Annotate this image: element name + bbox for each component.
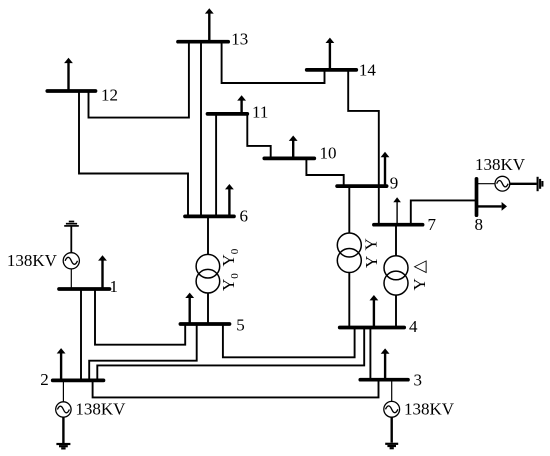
svg-text:14: 14 [359,61,377,80]
svg-text:3: 3 [414,371,423,390]
wire line 4-5 [223,324,355,357]
ground below generator G2 [56,444,70,448]
ground above generator G1 [64,222,79,226]
svg-text:138KV: 138KV [404,399,455,418]
wire line 7-8 [411,200,477,224]
transformer 5-6 Y0Y0 [196,216,220,324]
svg-text:Y: Y [410,278,429,290]
generator G3 at bus 3 [384,380,400,443]
svg-text:6: 6 [240,206,249,225]
wire line 1-5 [95,289,185,345]
wire line 2-5 [89,324,197,380]
svg-text:8: 8 [475,215,484,234]
bus 1 [59,287,110,291]
svg-text:138KV: 138KV [75,399,126,418]
ground below generator G3 [385,444,398,448]
svg-text:138KV: 138KV [7,251,58,270]
wire line 2-3 [93,380,379,398]
generator G2 at bus 2 [56,380,71,443]
load arrow at bus 3 [381,348,390,379]
svg-text:1: 1 [110,277,119,296]
load arrow at bus 5 [185,293,194,324]
svg-text:11: 11 [252,103,268,122]
bus 9 [337,184,387,188]
bus 3 [360,378,408,382]
wire line 6-12 [79,91,188,216]
svg-text:9: 9 [390,174,399,193]
bus 6 [185,215,234,219]
wire line 10-11 [247,114,270,158]
load arrow at bus 12 [64,58,73,91]
transformer 4-7 Y-delta [384,225,408,328]
svg-text:Y: Y [362,256,381,268]
bus 10 [264,157,314,161]
wire line 9-14 [348,70,379,186]
load arrow at bus 2 [57,348,66,380]
wire line 13-14 [222,42,325,83]
svg-text:5: 5 [236,316,245,335]
load arrow at bus 6 [225,184,234,216]
load arrow at bus 10 [289,136,298,159]
load arrow at bus 13 [205,8,214,42]
transformer 4-9 YY [337,186,361,327]
svg-text:Y: Y [362,238,381,250]
wire line 6-11 [215,114,217,216]
svg-text:7: 7 [428,215,437,234]
wire line 6-13 [200,42,202,217]
generator G8 at bus 8 [478,176,537,191]
load arrow at bus 11 [237,95,246,114]
bus 7 [374,223,423,227]
bus 2 [53,379,104,383]
bus 12 [47,89,95,93]
svg-text:2: 2 [40,370,49,389]
load arrow at bus 9 [381,152,390,186]
load arrow at bus 14 [326,38,335,70]
load arrow at bus 7 [393,197,401,225]
bus 8 [475,179,479,215]
svg-text:Y0: Y0 [219,248,241,266]
svg-text:4: 4 [409,317,418,336]
svg-text:138KV: 138KV [475,155,526,174]
wire line 7-9 [378,186,380,225]
svg-text:△: △ [410,259,429,273]
load arrow at bus 1 [98,255,107,289]
load arrow at bus 4 [370,295,379,328]
bus 5 [180,322,229,326]
wire line 1-2 [80,289,82,380]
svg-text:10: 10 [320,143,337,162]
wire line 12-13 [89,42,189,118]
bus 11 [208,112,248,116]
bus 4 [340,326,405,330]
bus 14 [307,68,357,72]
wire line 2-4 [97,328,364,381]
load arrow at bus 8 (pointing right) [478,202,507,211]
svg-text:12: 12 [101,85,118,104]
svg-text:13: 13 [231,29,248,48]
bus 13 [178,40,228,44]
generator G1 at bus 1 [63,226,79,289]
svg-text:Y0: Y0 [219,273,241,291]
ground right of generator G8 [538,177,543,191]
wire line 3-4 [369,328,371,380]
wire line 9-10 [306,158,343,186]
